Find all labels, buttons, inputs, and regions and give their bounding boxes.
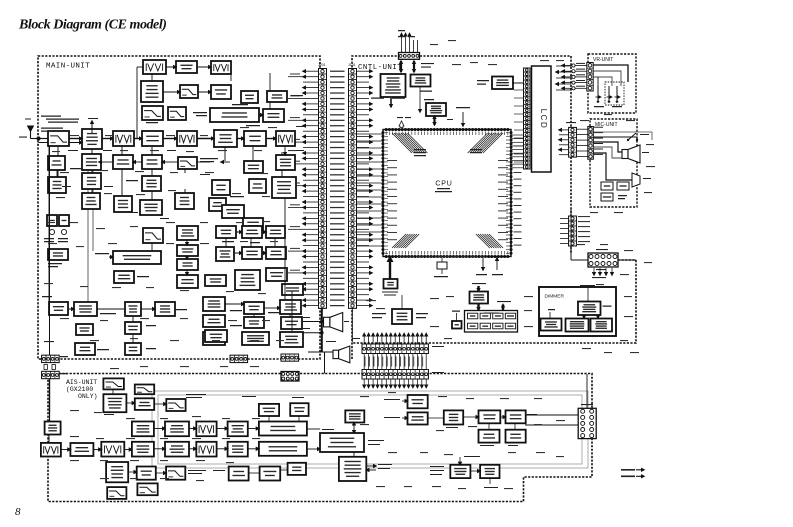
svg-text:LCD: LCD [539,109,548,130]
svg-text:J201: J201 [318,63,326,67]
svg-text:MAIN-UNIT: MAIN-UNIT [46,63,90,71]
svg-text:Block Diagram (CE model): Block Diagram (CE model) [18,18,166,33]
svg-text:J101: J101 [348,63,356,67]
svg-text:CPU: CPU [435,181,452,188]
svg-text:DIMMER: DIMMER [545,294,565,300]
svg-text:AIS-UNIT: AIS-UNIT [66,379,97,386]
svg-text:8: 8 [15,506,21,518]
svg-text:VR-UNIT: VR-UNIT [593,57,613,63]
svg-text:(GX2100: (GX2100 [66,386,93,393]
svg-text:ONLY): ONLY) [78,393,98,400]
